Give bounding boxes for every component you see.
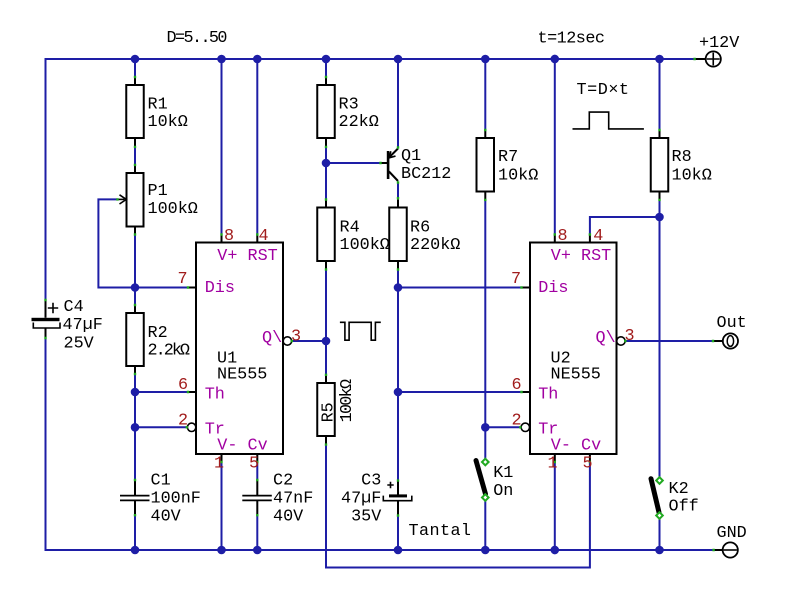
svg-text:4: 4: [593, 227, 603, 246]
svg-text:100kΩ: 100kΩ: [338, 379, 357, 423]
svg-text:V- Cv: V- Cv: [217, 437, 267, 456]
svg-text:C3: C3: [361, 472, 381, 491]
svg-text:5: 5: [249, 455, 259, 474]
svg-text:8: 8: [224, 227, 234, 246]
wire U1 Dis row: [135, 287, 188, 289]
wire rail F emitter collector R6 C3: [397, 59, 399, 550]
resistor R7: [477, 130, 495, 200]
svg-text:Q1: Q1: [401, 147, 421, 166]
op-amp U1 NE555 timer: [187, 235, 291, 463]
power +12V terminal: [695, 51, 721, 66]
wire U2 Dis row: [398, 287, 522, 289]
node bottom bus junctions: [131, 546, 664, 555]
svg-text:Dis: Dis: [538, 279, 568, 298]
node U2 Dis junction: [394, 283, 403, 292]
wire rail I R8 K2: [659, 59, 661, 550]
svg-text:Q\: Q\: [596, 329, 616, 348]
node rail B junctions: [131, 283, 140, 431]
svg-text:22kΩ: 22kΩ: [339, 113, 379, 132]
svg-text:35V: 35V: [351, 508, 381, 527]
wire U2 Tr row: [485, 426, 520, 428]
resistor R1: [126, 77, 144, 147]
svg-text:R2: R2: [148, 324, 168, 343]
wire P1 wiper loop: [98, 199, 135, 287]
waveform inverted pulses at U1 output: [340, 322, 381, 340]
svg-text:5: 5: [583, 455, 593, 474]
output Out terminal: [714, 333, 739, 348]
svg-text:7: 7: [178, 270, 188, 289]
svg-text:40V: 40V: [273, 508, 303, 527]
svg-text:Th: Th: [538, 386, 558, 405]
svg-text:NE555: NE555: [551, 366, 601, 385]
svg-text:R8: R8: [672, 148, 692, 167]
node U2 Tr junction: [481, 423, 490, 432]
svg-text:1: 1: [214, 455, 224, 474]
node U2 Th junction: [394, 388, 403, 397]
svg-text:10kΩ: 10kΩ: [672, 167, 712, 186]
resistor R3: [317, 77, 335, 147]
wire U1 Tr row: [135, 426, 187, 428]
svg-text:2: 2: [178, 412, 188, 431]
svg-text:1: 1: [548, 455, 558, 474]
wire rail C pin8/pin1 U1: [221, 59, 223, 550]
svg-text:R5: R5: [320, 402, 339, 422]
svg-text:47µF: 47µF: [63, 316, 103, 335]
svg-text:+12V: +12V: [699, 34, 739, 53]
switch K1: [476, 459, 489, 501]
wire bottom bus: [46, 338, 714, 550]
svg-text:10kΩ: 10kΩ: [498, 167, 538, 186]
svg-text:C2: C2: [273, 472, 293, 491]
svg-text:7: 7: [511, 270, 521, 289]
svg-text:100kΩ: 100kΩ: [340, 236, 390, 255]
svg-text:C1: C1: [151, 472, 171, 491]
wire rail E R3 R4 R5: [326, 59, 590, 568]
svg-text:6: 6: [512, 376, 522, 395]
svg-text:R7: R7: [498, 148, 518, 167]
svg-text:V+ RST: V+ RST: [217, 247, 277, 266]
svg-text:2: 2: [512, 412, 522, 431]
svg-text:Q\: Q\: [262, 329, 282, 348]
svg-text:BC212: BC212: [401, 165, 451, 184]
wire rail B top: [134, 59, 136, 550]
waveform pulse T=Dxt: [573, 112, 644, 129]
svg-text:10kΩ: 10kΩ: [148, 113, 188, 132]
svg-text:R1: R1: [148, 96, 168, 115]
svg-text:D=5..50: D=5..50: [167, 29, 228, 48]
resistor R8: [651, 130, 669, 200]
svg-text:2.2kΩ: 2.2kΩ: [148, 342, 191, 361]
svg-text:GND: GND: [717, 524, 747, 543]
capacitor C2: [242, 480, 271, 515]
ground GND terminal: [714, 542, 738, 557]
svg-text:3: 3: [625, 327, 635, 346]
svg-text:t=12sec: t=12sec: [538, 30, 606, 49]
node top bus junctions: [131, 55, 664, 64]
wire rail G R7 K1: [484, 59, 486, 550]
svg-text:C4: C4: [64, 298, 84, 317]
svg-text:Off: Off: [669, 498, 699, 517]
svg-text:3: 3: [291, 328, 301, 347]
node U1 output junction: [322, 337, 331, 346]
svg-text:Tantal: Tantal: [409, 522, 472, 541]
svg-text:V+ RST: V+ RST: [551, 247, 611, 266]
svg-text:R3: R3: [339, 96, 359, 115]
wire U2 pin4 to R8: [590, 217, 660, 235]
resistor R5: [317, 375, 335, 445]
wire top bus: [46, 59, 695, 300]
wire U1 Q out row: [292, 340, 326, 342]
wire Q1 base row: [326, 162, 381, 164]
svg-text:25V: 25V: [64, 335, 94, 354]
capacitor C4 electrolytic: [32, 300, 61, 338]
pin endpoint markers green: [44, 58, 715, 551]
svg-text:8: 8: [558, 227, 568, 246]
wire rail H pin8/pin1 U2: [554, 59, 556, 550]
potentiometer P1: [118, 165, 144, 235]
resistor R4: [317, 200, 335, 270]
svg-text:K1: K1: [493, 464, 513, 483]
svg-text:220kΩ: 220kΩ: [410, 236, 460, 255]
node Q1 base junction: [322, 159, 331, 168]
svg-text:R6: R6: [410, 219, 430, 238]
capacitor C3 electrolytic: [383, 481, 412, 516]
resistor R2: [126, 305, 144, 374]
svg-text:R4: R4: [340, 219, 360, 238]
svg-text:100kΩ: 100kΩ: [148, 200, 198, 219]
svg-text:Dis: Dis: [205, 279, 235, 298]
svg-text:4: 4: [259, 227, 269, 246]
svg-text:Out: Out: [717, 314, 747, 333]
svg-text:6: 6: [178, 376, 188, 395]
op-amp U2 NE555 timer: [521, 235, 625, 463]
svg-text:47nF: 47nF: [273, 490, 313, 509]
resistor R6: [389, 200, 407, 270]
svg-text:T=D×t: T=D×t: [577, 81, 630, 100]
switch K2: [651, 477, 663, 519]
svg-text:On: On: [493, 482, 513, 501]
node RST R8 junction: [655, 213, 664, 222]
svg-text:K2: K2: [669, 480, 689, 499]
svg-text:V- Cv: V- Cv: [551, 437, 601, 456]
svg-text:NE555: NE555: [217, 366, 267, 385]
wire rail D pin4/pin5 C2: [256, 59, 258, 550]
svg-text:40V: 40V: [151, 508, 181, 527]
capacitor C1: [120, 480, 150, 515]
svg-text:100nF: 100nF: [151, 490, 201, 509]
wire Out row: [625, 340, 713, 342]
transistor Q1 BC212: [381, 149, 398, 182]
wire U1 Th row: [135, 391, 188, 393]
svg-text:Th: Th: [205, 386, 225, 405]
svg-text:P1: P1: [148, 182, 168, 201]
wire U2 Th row: [398, 391, 522, 393]
svg-text:47µF: 47µF: [341, 490, 381, 509]
